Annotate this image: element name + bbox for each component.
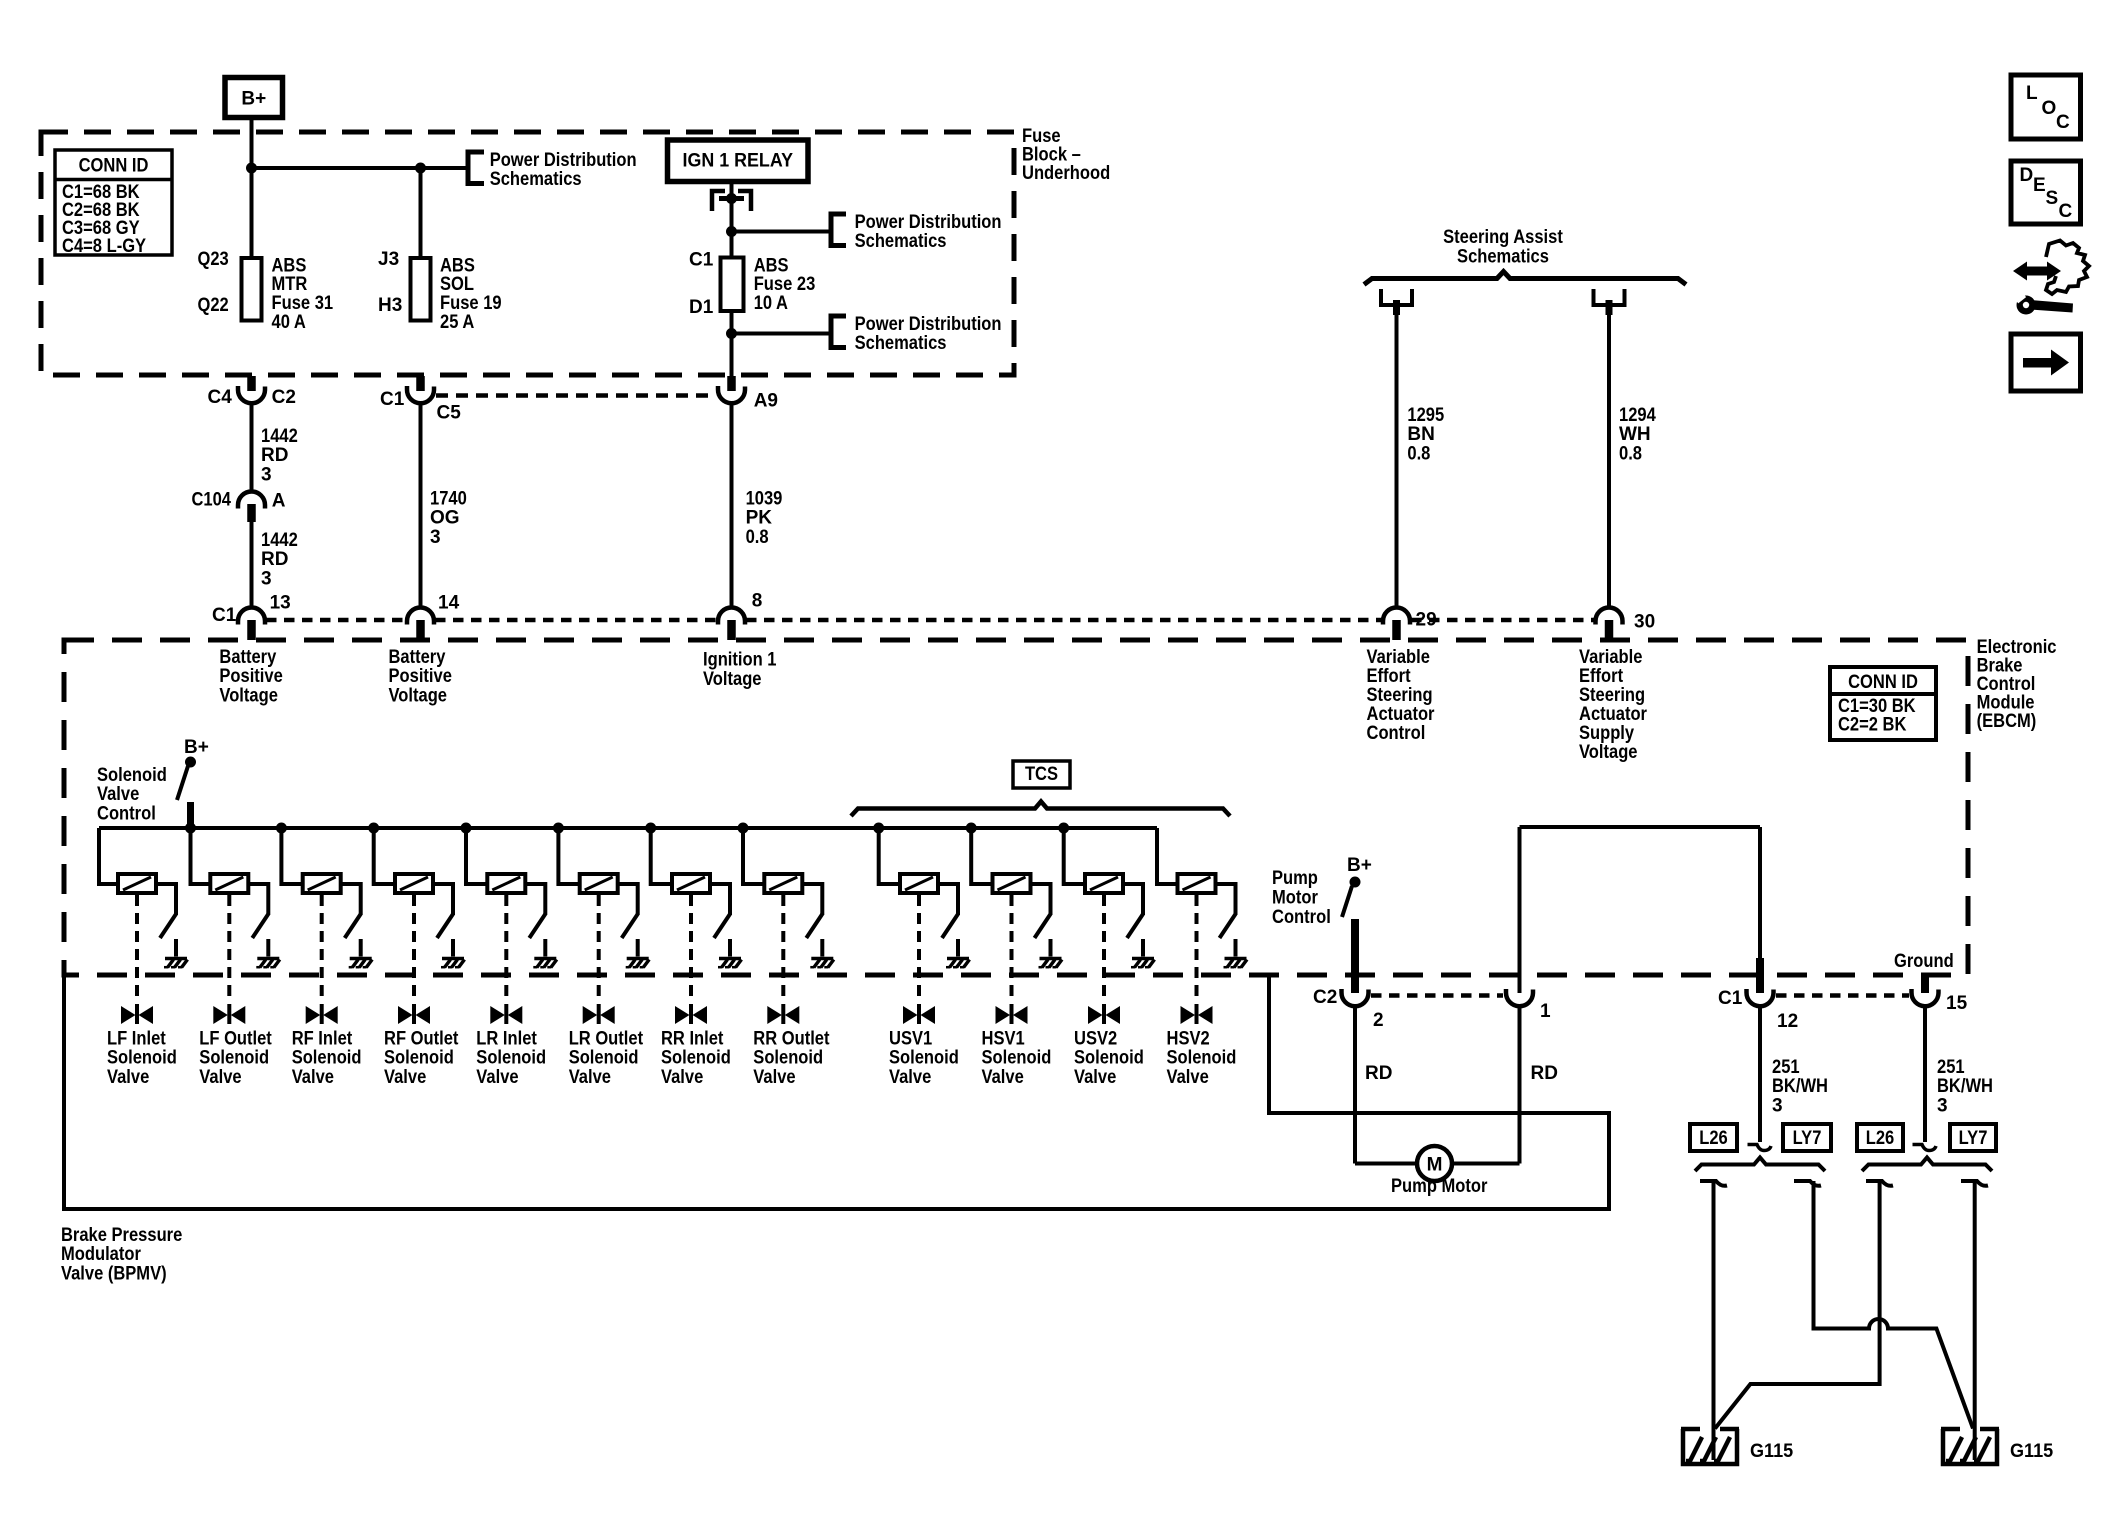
label solenoid valve control (97, 765, 167, 825)
wire RD (right) (1518, 1007, 1522, 1164)
connector C1 pin 13 (EBCM) (212, 593, 291, 641)
wire to G115 (LY7 right) (1973, 1181, 1977, 1460)
svg-text:Valve: Valve (889, 1067, 931, 1088)
brace splice (left) (1695, 1158, 1825, 1172)
label power distribution schematics (lower) (855, 314, 1002, 354)
svg-text:C1: C1 (689, 250, 714, 271)
svg-text:Valve: Valve (97, 784, 139, 805)
relay contact symbol (712, 191, 751, 211)
junction ABS SOL feed (416, 163, 426, 173)
svg-text:Variable: Variable (1367, 647, 1430, 668)
wire crossover (LY7 left to right ground) (1814, 1181, 1974, 1429)
wire to power distribution tap (252, 166, 467, 170)
junction relay branch 2 (727, 329, 737, 339)
svg-text:Supply: Supply (1579, 723, 1634, 744)
valve label: RF Outlet Solenoid Valve (384, 1028, 459, 1088)
svg-text:Solenoid: Solenoid (753, 1048, 823, 1069)
off-page bracket (power distribution, lower) (831, 316, 846, 348)
svg-text:Valve: Valve (199, 1067, 241, 1088)
svg-text:3: 3 (430, 527, 441, 548)
connector pin 14 (EBCM) (407, 593, 460, 641)
valve label: RR Inlet Solenoid Valve (661, 1028, 731, 1088)
valve label: USV2 Solenoid Valve (1074, 1028, 1144, 1088)
svg-text:RD: RD (1531, 1063, 1558, 1084)
label power distribution schematics (top) (490, 150, 637, 190)
ground G115 (right) (1941, 1429, 2054, 1464)
svg-text:O: O (2042, 98, 2057, 119)
node VES actuator control (pin 29) (1367, 647, 1436, 744)
svg-text:RR Inlet: RR Inlet (661, 1028, 724, 1049)
connector C1 pin 12 (1718, 988, 1798, 1032)
svg-text:Positive: Positive (219, 666, 282, 687)
svg-text:30: 30 (1634, 612, 1655, 633)
svg-text:40 A: 40 A (272, 312, 307, 333)
pin D1 (fuse 23) (689, 297, 714, 318)
svg-text:Q23: Q23 (198, 249, 229, 270)
label fuse 19 (440, 255, 502, 332)
label 1039 PK 0.8 (746, 488, 783, 548)
wire B+ to solenoid bus (187, 802, 194, 828)
connector C1/C5 (380, 376, 461, 424)
label 251 BK/WH 3 (left) (1772, 1057, 1828, 1117)
svg-text:Solenoid: Solenoid (889, 1048, 959, 1069)
solenoid driver: LR Outlet (553, 823, 649, 1024)
svg-text:G115: G115 (2010, 1441, 2054, 1462)
wire terminal hook LY7-right (1961, 1181, 1988, 1186)
label RD (right) (1531, 1063, 1558, 1084)
svg-text:1442: 1442 (261, 426, 298, 447)
svg-text:HSV1: HSV1 (982, 1028, 1026, 1049)
svg-text:Modulator: Modulator (61, 1244, 141, 1265)
svg-text:Positive: Positive (389, 666, 452, 687)
connector pin 8 (EBCM) (718, 590, 762, 640)
svg-text:Solenoid: Solenoid (569, 1048, 639, 1069)
svg-text:S: S (2046, 188, 2059, 209)
EBCM dashed box (64, 640, 1968, 975)
solenoid driver: RF Outlet (369, 823, 465, 1024)
fuse 19 ABS SOL 25A (411, 258, 431, 321)
label 1442 RD 3 (upper) (261, 426, 298, 486)
svg-text:Control: Control (97, 804, 156, 825)
svg-text:1442: 1442 (261, 530, 298, 551)
svg-text:LF Inlet: LF Inlet (107, 1028, 166, 1049)
wire motor left (1355, 1162, 1417, 1166)
svg-text:Pump: Pump (1272, 868, 1318, 889)
svg-text:Control: Control (1272, 907, 1331, 928)
svg-text:RF Outlet: RF Outlet (384, 1028, 459, 1049)
svg-text:BN: BN (1407, 424, 1434, 445)
svg-text:B+: B+ (184, 737, 209, 758)
svg-text:2: 2 (1373, 1010, 1384, 1031)
node B+ (pump motor control) (1347, 855, 1372, 887)
dotted harness line pins 13-14-8-29-30 (266, 618, 1594, 623)
svg-text:RD: RD (261, 445, 288, 466)
svg-text:BK/WH: BK/WH (1772, 1076, 1828, 1097)
wire 251 BK/WH (from pin 15) (1913, 1007, 1937, 1151)
svg-text:Valve: Valve (661, 1067, 703, 1088)
svg-text:J3: J3 (378, 249, 399, 270)
solenoid driver: LF Outlet (186, 823, 280, 1024)
option box L26 (right) (1857, 1124, 1903, 1151)
CONN ID table (EBCM) (1830, 667, 1936, 740)
label 1294 WH 0.8 (1619, 405, 1656, 465)
wire 1294 WH (1607, 315, 1611, 608)
node battery positive voltage (pin 14) (389, 647, 452, 707)
svg-text:8: 8 (752, 590, 763, 611)
svg-text:B+: B+ (241, 89, 266, 110)
fuse 31 ABS MTR 40A (242, 258, 262, 321)
valve label: HSV1 Solenoid Valve (982, 1028, 1052, 1088)
label pump motor (1391, 1176, 1488, 1197)
valve label: RF Inlet Solenoid Valve (292, 1028, 362, 1088)
wire 1740 OG (419, 404, 423, 608)
option box L26 (left) (1690, 1124, 1737, 1151)
svg-text:12: 12 (1777, 1011, 1798, 1032)
svg-text:L: L (2026, 83, 2038, 104)
valve label: USV1 Solenoid Valve (889, 1028, 959, 1088)
solenoid supply bus (99, 826, 1157, 830)
svg-text:Voltage: Voltage (389, 685, 448, 706)
svg-text:PK: PK (746, 508, 773, 529)
label power distribution schematics (mid) (855, 212, 1002, 252)
label fuse 23 (754, 255, 816, 314)
wire terminal hook LY7-left (1794, 1181, 1821, 1186)
wire 251 BK/WH (from pin 12) (1748, 1007, 1772, 1151)
svg-text:Actuator: Actuator (1579, 704, 1648, 725)
wire RD (left) (1353, 1007, 1357, 1164)
svg-text:M: M (1427, 1155, 1443, 1176)
wire terminal hook L26-left (1700, 1181, 1727, 1186)
label TCS (1013, 761, 1070, 788)
label 1295 BN 0.8 (1407, 405, 1444, 465)
svg-text:Valve: Valve (292, 1067, 334, 1088)
wire fuse 23 to A9 (730, 334, 734, 377)
svg-text:C1: C1 (1718, 988, 1743, 1009)
svg-text:Motor: Motor (1272, 888, 1318, 909)
svg-text:0.8: 0.8 (1619, 444, 1642, 465)
icon forward arrow (2011, 334, 2081, 391)
svg-text:Solenoid: Solenoid (292, 1048, 362, 1069)
svg-text:C2=2 BK: C2=2 BK (1838, 714, 1907, 735)
dashed connector line C5 to A9 (436, 393, 715, 398)
svg-text:LR Outlet: LR Outlet (569, 1028, 644, 1049)
svg-text:H3: H3 (378, 295, 402, 316)
pin Q22 (198, 295, 229, 316)
connector pin 29 (EBCM) (1383, 608, 1437, 641)
label BPMV (61, 1225, 182, 1285)
svg-text:IGN 1 RELAY: IGN 1 RELAY (683, 151, 794, 172)
solenoid driver: LF Inlet (99, 828, 188, 1024)
node B+ (solenoid valve control) (184, 737, 209, 767)
fuse block label (1022, 126, 1110, 184)
node ground (1894, 951, 1954, 972)
svg-text:1294: 1294 (1619, 405, 1656, 426)
wire ABS SOL feed down (419, 168, 423, 258)
svg-text:Ground: Ground (1894, 951, 1954, 972)
svg-text:Effort: Effort (1579, 666, 1624, 687)
svg-text:1740: 1740 (430, 488, 467, 509)
wire 1039 PK (730, 404, 734, 608)
svg-text:Power Distribution: Power Distribution (490, 150, 637, 171)
valve label: LR Inlet Solenoid Valve (476, 1028, 546, 1088)
solenoid driver: HSV2 (1157, 828, 1247, 1024)
svg-text:L26: L26 (1699, 1128, 1728, 1149)
connector C2 pin 2 (1313, 987, 1384, 1031)
off-page bracket (power distribution, mid) (831, 214, 846, 246)
svg-text:D: D (2020, 165, 2034, 186)
svg-text:C1: C1 (380, 389, 405, 410)
svg-text:USV2: USV2 (1074, 1028, 1117, 1049)
dotted connector line C2-2 to 1 (1371, 993, 1503, 998)
node ignition 1 voltage (pin 8) (703, 650, 777, 690)
connector C4/C2 (208, 376, 296, 408)
svg-text:Schematics: Schematics (855, 231, 947, 252)
icon DESC (2011, 161, 2081, 224)
fuse 23 ABS 10A (721, 258, 744, 312)
svg-text:0.8: 0.8 (1407, 444, 1430, 465)
svg-text:LR Inlet: LR Inlet (476, 1028, 537, 1049)
svg-text:25 A: 25 A (440, 312, 475, 333)
label pump motor control (1272, 868, 1331, 928)
wire B+ to fuse 31 (250, 118, 254, 259)
connector pin 15 (1911, 989, 1967, 1014)
connector A9 (718, 376, 778, 412)
svg-text:0.8: 0.8 (746, 527, 769, 548)
wire fuse 23 down (730, 311, 734, 334)
svg-text:Power Distribution: Power Distribution (855, 212, 1002, 233)
svg-text:C2: C2 (272, 387, 296, 408)
svg-text:Schematics: Schematics (855, 333, 947, 354)
solenoid driver: USV2 (1059, 823, 1155, 1024)
switch blade (pump motor control) (1342, 886, 1352, 917)
switch blade (solenoid valve control) (177, 766, 188, 800)
plug connector (steering, left) (1381, 289, 1412, 315)
svg-text:Valve (BPMV): Valve (BPMV) (61, 1264, 167, 1285)
label 1442 RD 3 (lower) (261, 530, 298, 590)
svg-text:Underhood: Underhood (1022, 163, 1110, 184)
option box LY7 (right) (1950, 1124, 1996, 1151)
svg-text:Q22: Q22 (198, 295, 229, 316)
junction on B+ feed (247, 163, 257, 173)
label 1740 OG 3 (430, 488, 467, 548)
svg-text:Valve: Valve (982, 1067, 1024, 1088)
svg-text:WH: WH (1619, 424, 1651, 445)
svg-text:C: C (2059, 201, 2073, 222)
power node B+ (225, 78, 283, 118)
svg-text:Valve: Valve (753, 1067, 795, 1088)
svg-text:Valve: Valve (1167, 1067, 1209, 1088)
svg-text:13: 13 (270, 593, 291, 614)
valve label: RR Outlet Solenoid Valve (753, 1028, 830, 1088)
plug connector (steering, right) (1594, 289, 1625, 315)
svg-text:Battery: Battery (219, 647, 276, 668)
wire 1442 RD segment 2 (250, 522, 254, 608)
svg-text:1039: 1039 (746, 488, 783, 509)
svg-text:D1: D1 (689, 297, 714, 318)
wire EBCM to pin 1 (1518, 827, 1522, 993)
svg-text:Effort: Effort (1367, 666, 1412, 687)
fuse block underhood dashed box (41, 132, 1014, 375)
pin J3 (378, 249, 399, 270)
wire ground path to C1-12 (1756, 958, 1764, 993)
label RD (left) (1365, 1063, 1392, 1084)
svg-text:Actuator: Actuator (1367, 704, 1436, 725)
svg-text:Schematics: Schematics (490, 169, 582, 190)
BPMV outline box (64, 975, 1609, 1209)
wire 1442 RD segment 1 (250, 404, 254, 492)
solenoid driver: HSV1 (966, 823, 1062, 1024)
ground G115 (left) (1681, 1429, 1794, 1464)
svg-text:C2: C2 (1313, 987, 1337, 1008)
svg-text:15: 15 (1946, 993, 1968, 1014)
junction relay branch 1 (727, 227, 737, 237)
svg-text:3: 3 (261, 569, 272, 590)
svg-text:B+: B+ (1347, 855, 1372, 876)
label 251 BK/WH 3 (right) (1937, 1057, 1993, 1117)
label fuse 31 (272, 255, 334, 332)
CONN ID table (fuse block) (55, 150, 172, 257)
svg-text:Voltage: Voltage (219, 685, 278, 706)
label steering assist schematics (1443, 227, 1563, 267)
svg-text:C5: C5 (437, 403, 462, 424)
svg-text:TCS: TCS (1025, 764, 1058, 785)
svg-text:1: 1 (1540, 1001, 1551, 1022)
brace TCS group (851, 802, 1230, 817)
svg-text:Valve: Valve (569, 1067, 611, 1088)
svg-text:Valve: Valve (107, 1067, 149, 1088)
wire relay to fuse 23 (730, 182, 734, 258)
solenoid driver: RF Inlet (276, 823, 372, 1024)
svg-text:10 A: 10 A (754, 293, 789, 314)
wire relay branch 1 (732, 230, 832, 234)
svg-text:CONN ID: CONN ID (79, 156, 149, 177)
svg-text:RF Inlet: RF Inlet (292, 1028, 353, 1049)
svg-text:Solenoid: Solenoid (982, 1048, 1052, 1069)
svg-text:L26: L26 (1866, 1128, 1895, 1149)
svg-text:Schematics: Schematics (1457, 247, 1549, 268)
svg-text:Battery: Battery (389, 647, 446, 668)
connector C104 pin A (192, 489, 286, 522)
pin Q23 (198, 249, 229, 270)
svg-text:Pump Motor: Pump Motor (1391, 1176, 1488, 1197)
svg-text:Steering: Steering (1579, 685, 1645, 706)
svg-text:LY7: LY7 (1959, 1128, 1988, 1149)
connector pin 1 (1506, 989, 1551, 1022)
solenoid driver: RR Inlet (646, 823, 742, 1024)
svg-text:RD: RD (261, 549, 288, 570)
wire relay branch 2 (732, 332, 832, 336)
wire ground stub (1921, 977, 1929, 993)
svg-text:Solenoid: Solenoid (107, 1048, 177, 1069)
svg-text:Ignition 1: Ignition 1 (703, 650, 777, 671)
svg-text:Steering Assist: Steering Assist (1443, 227, 1563, 248)
svg-text:BK/WH: BK/WH (1937, 1076, 1993, 1097)
valve label: HSV2 Solenoid Valve (1167, 1028, 1237, 1088)
wire to G115 (L26 left) (1712, 1181, 1716, 1460)
svg-text:A9: A9 (754, 391, 778, 412)
dotted connector line 12 to 15 (1776, 993, 1909, 998)
node VES actuator supply voltage (pin 30) (1579, 647, 1648, 763)
svg-text:Valve: Valve (384, 1067, 426, 1088)
svg-text:CONN ID: CONN ID (1848, 672, 1918, 693)
svg-text:Control: Control (1367, 723, 1426, 744)
node battery positive voltage (pin 13) (219, 647, 282, 707)
wire crossover (L26 right to left ground) (1715, 1181, 1880, 1429)
svg-text:Solenoid: Solenoid (476, 1048, 546, 1069)
svg-text:3: 3 (261, 465, 272, 486)
icon LOC (2011, 75, 2081, 139)
off-page bracket (power distribution, top) (468, 152, 484, 184)
svg-text:251: 251 (1937, 1057, 1965, 1078)
svg-text:(EBCM): (EBCM) (1977, 711, 2037, 732)
svg-text:RD: RD (1365, 1063, 1392, 1084)
valve label: LR Outlet Solenoid Valve (569, 1028, 644, 1088)
svg-text:C104: C104 (192, 489, 232, 510)
svg-text:C4: C4 (208, 387, 233, 408)
svg-text:Valve: Valve (476, 1067, 518, 1088)
svg-text:Solenoid: Solenoid (1074, 1048, 1144, 1069)
svg-text:C: C (2056, 112, 2070, 133)
svg-text:OG: OG (430, 508, 460, 529)
solenoid driver: USV1 (874, 823, 970, 1024)
pin H3 (378, 295, 402, 316)
wire terminal hook L26-right (1866, 1181, 1893, 1186)
svg-text:Valve: Valve (1074, 1067, 1116, 1088)
svg-text:Solenoid: Solenoid (661, 1048, 731, 1069)
svg-text:USV1: USV1 (889, 1028, 933, 1049)
svg-text:C1: C1 (212, 605, 237, 626)
svg-text:A: A (272, 490, 286, 511)
svg-text:LY7: LY7 (1793, 1128, 1822, 1149)
label EBCM (1977, 637, 2057, 732)
relay K: IGN 1 RELAY (668, 140, 809, 182)
svg-text:14: 14 (438, 593, 460, 614)
svg-text:1295: 1295 (1407, 405, 1444, 426)
icon wrench and arrows (2013, 241, 2089, 315)
svg-text:LF Outlet: LF Outlet (199, 1028, 272, 1049)
svg-text:Steering: Steering (1367, 685, 1433, 706)
pin C1 (fuse 23) (689, 250, 714, 271)
pump motor M (1417, 1146, 1452, 1181)
svg-text:G115: G115 (1750, 1441, 1794, 1462)
solenoid driver: RR Outlet (738, 823, 834, 1024)
svg-text:Solenoid: Solenoid (1167, 1048, 1237, 1069)
wire 1295 BN (1395, 315, 1399, 608)
svg-text:RR Outlet: RR Outlet (753, 1028, 830, 1049)
wire pump control to connector C2 (1351, 919, 1359, 993)
svg-text:3: 3 (1772, 1096, 1783, 1117)
valve label: LF Inlet Solenoid Valve (107, 1028, 177, 1088)
svg-text:Voltage: Voltage (703, 669, 762, 690)
svg-text:C4=8 L-GY: C4=8 L-GY (62, 236, 146, 257)
svg-text:Power Distribution: Power Distribution (855, 314, 1002, 335)
svg-text:3: 3 (1937, 1096, 1948, 1117)
connector pin 30 (EBCM) (1596, 608, 1656, 641)
svg-text:Solenoid: Solenoid (199, 1048, 269, 1069)
option box LY7 (left) (1783, 1124, 1831, 1151)
svg-text:Solenoid: Solenoid (384, 1048, 454, 1069)
svg-text:E: E (2033, 175, 2046, 196)
svg-text:Voltage: Voltage (1579, 742, 1638, 763)
svg-text:Solenoid: Solenoid (97, 765, 167, 786)
svg-text:Variable: Variable (1579, 647, 1642, 668)
svg-text:HSV2: HSV2 (1167, 1028, 1210, 1049)
wire motor right (1452, 1162, 1520, 1166)
svg-text:251: 251 (1772, 1057, 1800, 1078)
brace steering assist (1364, 272, 1686, 285)
solenoid driver: LR Inlet (461, 823, 557, 1024)
brace splice (right) (1862, 1158, 1992, 1172)
